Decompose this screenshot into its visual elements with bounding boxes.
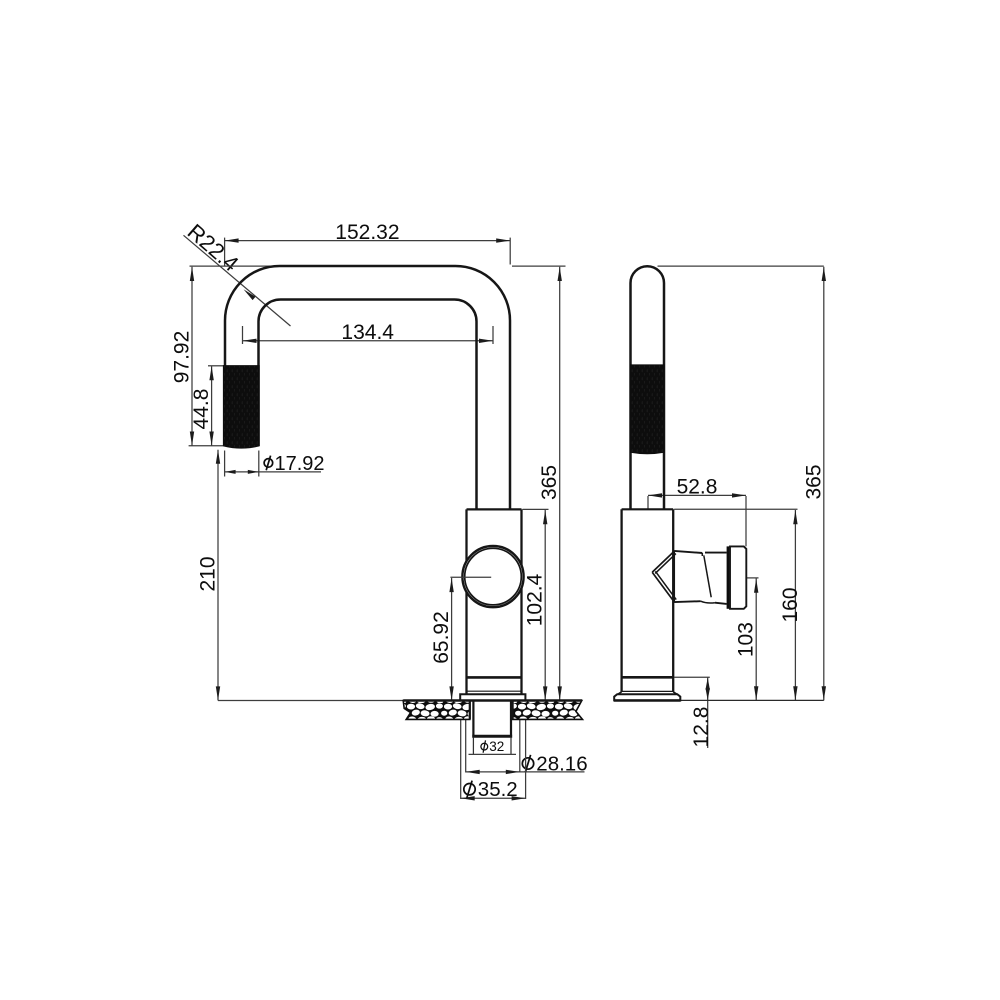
svg-text:44.8: 44.8 — [190, 389, 213, 430]
svg-text:160: 160 — [779, 587, 802, 622]
svg-text:102.4: 102.4 — [524, 573, 547, 626]
svg-text:134.4: 134.4 — [341, 321, 394, 344]
svg-text:35.2: 35.2 — [478, 778, 518, 801]
svg-text:152.32: 152.32 — [335, 221, 399, 244]
svg-text:103: 103 — [735, 622, 758, 657]
svg-text:17.92: 17.92 — [275, 453, 325, 475]
svg-text:32: 32 — [489, 739, 504, 754]
svg-text:97.92: 97.92 — [171, 331, 194, 384]
svg-text:12.8: 12.8 — [690, 707, 713, 748]
svg-text:52.8: 52.8 — [677, 476, 718, 499]
svg-text:28.16: 28.16 — [536, 752, 587, 775]
svg-text:65.92: 65.92 — [430, 611, 453, 664]
svg-text:365: 365 — [538, 465, 561, 500]
svg-text:365: 365 — [802, 464, 825, 499]
svg-text:210: 210 — [197, 556, 220, 591]
